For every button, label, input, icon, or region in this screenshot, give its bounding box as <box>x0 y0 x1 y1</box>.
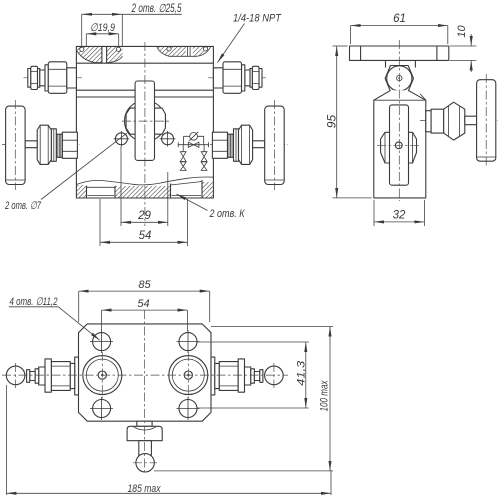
svg-text:4 отв. ∅11,2: 4 отв. ∅11,2 <box>10 296 58 308</box>
svg-text:32: 32 <box>393 210 406 222</box>
svg-text:41,3: 41,3 <box>296 360 308 386</box>
svg-text:61: 61 <box>393 13 406 25</box>
svg-text:185 max: 185 max <box>128 483 161 495</box>
svg-text:95: 95 <box>325 115 339 129</box>
svg-text:2 отв. ∅7: 2 отв. ∅7 <box>4 200 41 212</box>
svg-text:100 max: 100 max <box>319 380 331 411</box>
svg-text:54: 54 <box>139 230 152 242</box>
svg-text:2 отв. К: 2 отв. К <box>209 208 245 220</box>
svg-text:54: 54 <box>137 298 149 310</box>
svg-text:85: 85 <box>138 279 151 291</box>
svg-text:2 отв. ∅25,5: 2 отв. ∅25,5 <box>131 3 182 15</box>
svg-text:1/4-18 NPT: 1/4-18 NPT <box>233 13 282 25</box>
svg-text:29: 29 <box>137 210 151 222</box>
svg-text:∅19,9: ∅19,9 <box>90 22 115 34</box>
svg-text:10: 10 <box>456 25 468 38</box>
